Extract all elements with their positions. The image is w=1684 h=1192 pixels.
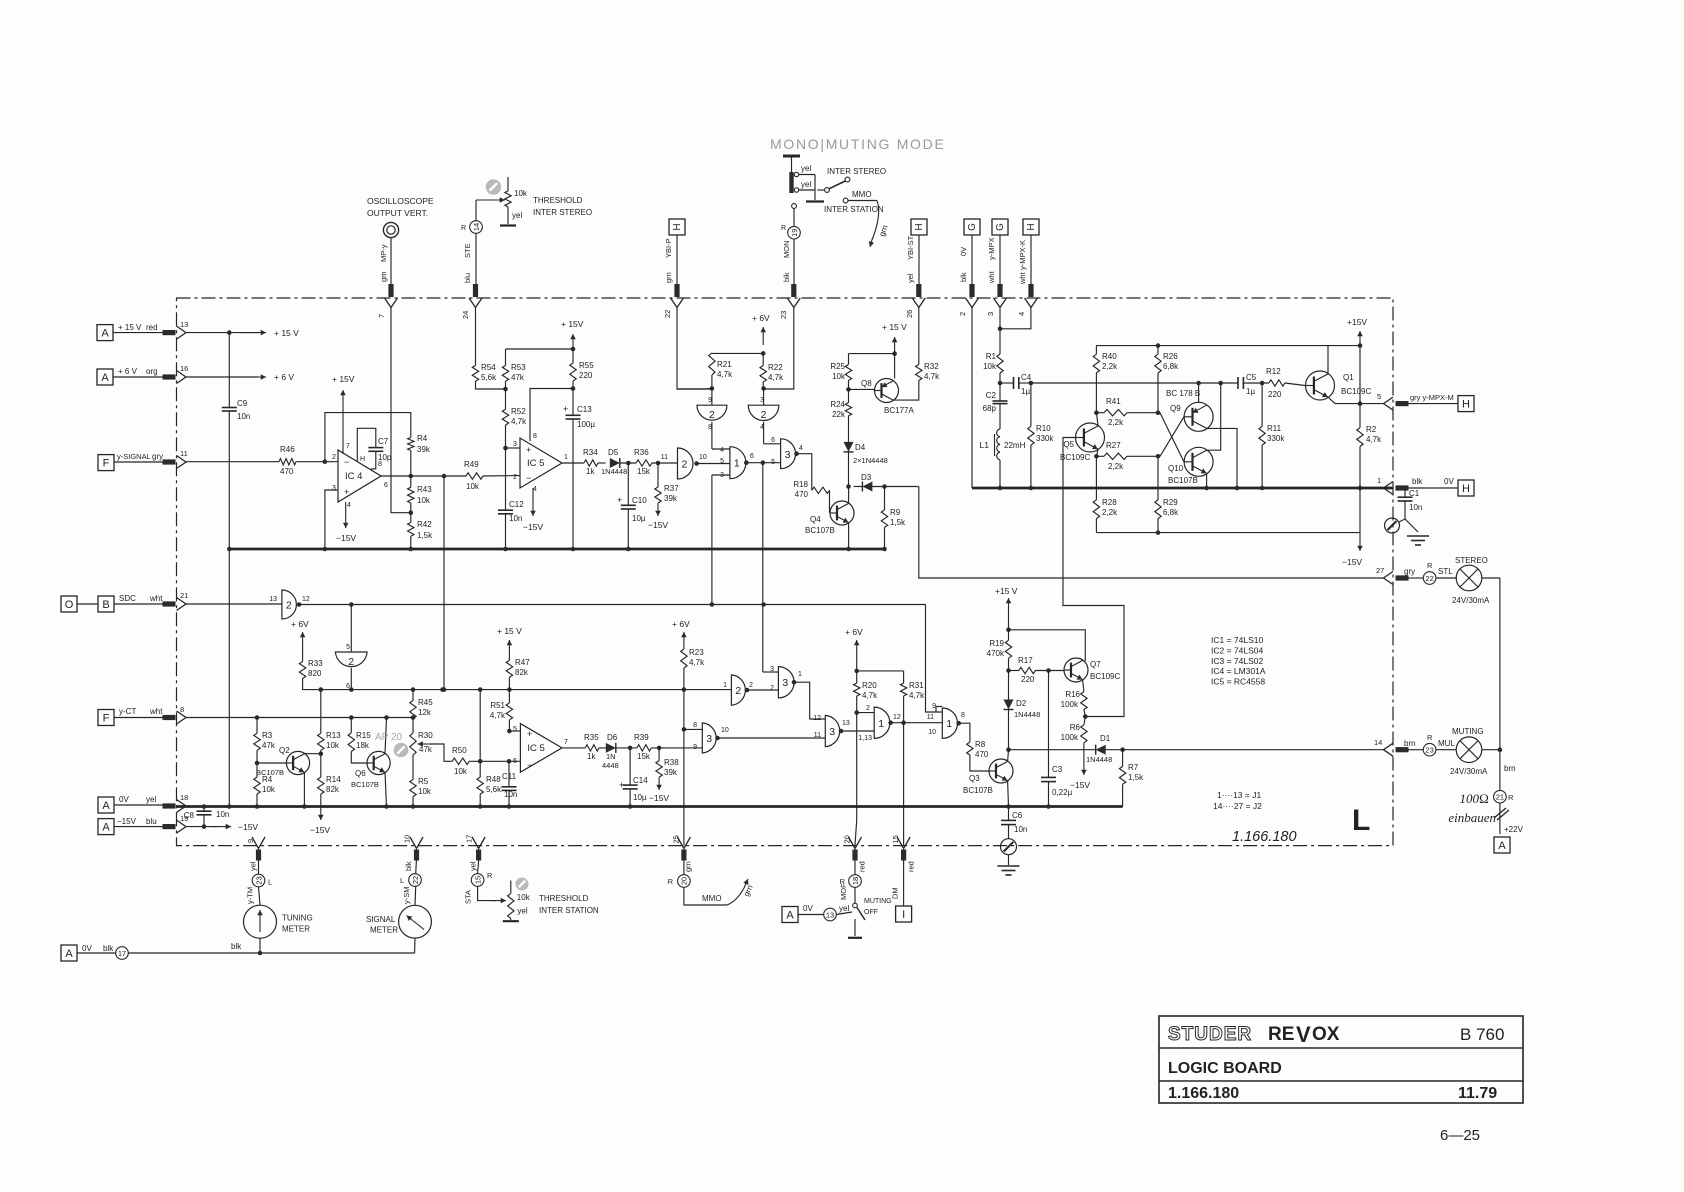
- svg-text:−15V: −15V: [1070, 780, 1090, 790]
- connector pin 13: [177, 326, 187, 339]
- wire MMO: [684, 887, 727, 905]
- svg-text:blk: blk: [1412, 477, 1423, 486]
- svg-text:AP 20: AP 20: [375, 732, 402, 743]
- svg-text:15k: 15k: [637, 467, 651, 476]
- wire main y=383: [1031, 382, 1238, 384]
- svg-text:1: 1: [878, 718, 884, 730]
- svg-text:H: H: [672, 223, 683, 230]
- svg-text:L: L: [400, 876, 404, 885]
- svg-text:18: 18: [851, 877, 860, 885]
- svg-text:1,5k: 1,5k: [890, 518, 906, 527]
- svg-text:10k: 10k: [326, 741, 340, 750]
- resistor R50 10k: [452, 758, 469, 764]
- svg-text:3: 3: [513, 441, 517, 448]
- resistor R8 470: [967, 742, 973, 755]
- svg-text:R39: R39: [634, 733, 649, 742]
- svg-text:R23: R23: [689, 648, 704, 657]
- wire gate4 output to R18: [797, 454, 812, 491]
- svg-text:I: I: [902, 909, 905, 921]
- svg-text:R26: R26: [1163, 352, 1178, 361]
- svg-text:D5: D5: [608, 448, 619, 457]
- svg-text:22: 22: [663, 310, 672, 318]
- switch S1 mono/muting: [783, 155, 800, 158]
- svg-text:24V/30mA: 24V/30mA: [1452, 596, 1490, 605]
- svg-text:y-MPX: y-MPX: [987, 238, 996, 261]
- svg-text:1: 1: [946, 718, 952, 730]
- diode D1 1N4448: [1096, 745, 1106, 755]
- svg-text:Q10: Q10: [1168, 464, 1184, 473]
- svg-text:+ 6V: + 6V: [752, 313, 770, 323]
- resistor R4 10k: [256, 763, 258, 777]
- svg-text:C7: C7: [378, 437, 389, 446]
- svg-text:−15V: −15V: [336, 533, 356, 543]
- wire IC5b output: [562, 747, 585, 749]
- svg-text:y-SIGNAL: y-SIGNAL: [117, 452, 151, 461]
- svg-text:yel: yel: [839, 904, 849, 913]
- capacitor C13 100u: [572, 389, 574, 416]
- svg-text:einbauen: einbauen: [1448, 810, 1496, 825]
- connector pin 24: [469, 298, 482, 308]
- svg-text:23: 23: [779, 311, 788, 319]
- svg-text:11: 11: [661, 454, 668, 461]
- connector pin 26: [912, 298, 925, 308]
- wire gate13 out to IC1 pin1,13: [841, 730, 874, 732]
- svg-text:2,2k: 2,2k: [1108, 462, 1124, 471]
- svg-text:7: 7: [564, 739, 568, 746]
- svg-text:1: 1: [564, 454, 568, 461]
- svg-text:9: 9: [932, 703, 936, 710]
- svg-text:10: 10: [699, 454, 707, 461]
- svg-text:4,7k: 4,7k: [689, 658, 705, 667]
- diode D4 2x1N4448: [848, 416, 850, 442]
- box I DM: [896, 906, 912, 922]
- svg-text:A: A: [786, 910, 794, 922]
- svg-text:68p: 68p: [983, 404, 997, 413]
- svg-text:15: 15: [891, 835, 900, 843]
- svg-text:IC2 = 74LS04: IC2 = 74LS04: [1211, 645, 1263, 655]
- svg-text:R24: R24: [830, 400, 845, 409]
- svg-text:1: 1: [734, 458, 740, 470]
- connector pin 2: [966, 298, 979, 308]
- svg-text:L: L: [268, 878, 272, 887]
- svg-text:MON: MON: [782, 241, 791, 259]
- svg-text:R: R: [1427, 733, 1433, 742]
- svg-text:brn: brn: [1504, 764, 1516, 773]
- svg-text:R17: R17: [1018, 656, 1033, 665]
- svg-text:1µ: 1µ: [1246, 387, 1255, 396]
- transistor Q6 BC107B: [367, 751, 390, 774]
- svg-text:1k: 1k: [587, 752, 596, 761]
- svg-text:R55: R55: [579, 361, 594, 370]
- resistor R42 1,5k: [410, 503, 412, 522]
- svg-text:9: 9: [246, 839, 255, 843]
- svg-text:R46: R46: [280, 445, 295, 454]
- svg-text:gry: gry: [1404, 567, 1415, 576]
- svg-text:5: 5: [771, 459, 775, 466]
- svg-text:THRESHOLD: THRESHOLD: [539, 894, 589, 903]
- svg-text:B 760: B 760: [1460, 1025, 1504, 1044]
- resistor R13 10k: [320, 690, 322, 734]
- wire SDC distribution: [299, 604, 925, 606]
- wire y-signal: [186, 461, 279, 463]
- trimmer threshold inter station: [516, 878, 529, 891]
- svg-text:C11: C11: [502, 772, 517, 781]
- svg-text:2: 2: [286, 600, 292, 612]
- svg-text:22: 22: [411, 876, 420, 884]
- resistor R12 220: [1269, 380, 1285, 386]
- wire Q7 emitter to R16: [1083, 680, 1084, 692]
- svg-text:4,7k: 4,7k: [924, 372, 940, 381]
- svg-text:22k: 22k: [832, 410, 846, 419]
- svg-text:O: O: [65, 599, 74, 611]
- svg-text:C12: C12: [509, 500, 524, 509]
- resistor R39 15k: [637, 745, 651, 751]
- svg-text:STL: STL: [1438, 567, 1453, 576]
- svg-text:21: 21: [1496, 793, 1504, 802]
- svg-text:y-MPX-K: y-MPX-K: [1018, 240, 1027, 270]
- svg-text:22: 22: [1425, 574, 1433, 583]
- svg-text:82k: 82k: [515, 668, 529, 677]
- op-amp IC5b: [520, 724, 562, 773]
- svg-text:BC 178 B: BC 178 B: [1166, 389, 1200, 398]
- svg-text:39k: 39k: [664, 768, 678, 777]
- svg-text:12: 12: [302, 596, 310, 603]
- box G for pin 2: [964, 219, 980, 235]
- svg-text:R11: R11: [1267, 424, 1282, 433]
- svg-text:org: org: [146, 367, 158, 376]
- wire +6V to R31: [857, 670, 904, 672]
- svg-text:R6: R6: [1070, 723, 1081, 732]
- connector pin 17: [472, 837, 485, 849]
- svg-text:24V/30mA: 24V/30mA: [1450, 767, 1488, 776]
- wire Q3 emitter: [1007, 781, 1010, 807]
- svg-text:2,2k: 2,2k: [1102, 362, 1118, 371]
- svg-text:0V: 0V: [803, 904, 813, 913]
- lamp MUTING 24V/30mA: [1436, 749, 1456, 751]
- svg-text:1k: 1k: [586, 467, 595, 476]
- svg-text:INTER STEREO: INTER STEREO: [533, 208, 592, 217]
- wire IC5a output: [562, 462, 584, 464]
- +6V arrow R33: [302, 632, 304, 645]
- svg-text:3: 3: [706, 733, 712, 745]
- svg-text:MMO: MMO: [702, 894, 722, 903]
- svg-text:4: 4: [347, 502, 351, 509]
- svg-text:0V: 0V: [1444, 477, 1454, 486]
- wire IC5a pin4 -15V: [532, 488, 534, 516]
- wire Q6 emitter: [385, 772, 387, 806]
- svg-text:C4: C4: [1021, 373, 1032, 382]
- feedback wire: [325, 413, 411, 462]
- svg-text:10k: 10k: [832, 372, 846, 381]
- svg-text:y-TM: y-TM: [246, 887, 255, 904]
- 0V rail right: [972, 487, 1393, 490]
- svg-text:10: 10: [721, 727, 729, 734]
- resistor R6 100k: [1084, 717, 1085, 725]
- wire Q5 emitter: [1096, 450, 1098, 457]
- resistor R5 10k: [412, 755, 414, 780]
- svg-text:820: 820: [308, 669, 322, 678]
- svg-text:yel: yel: [801, 180, 811, 189]
- svg-text:470: 470: [975, 750, 989, 759]
- chassis screw on border: [1001, 839, 1017, 855]
- svg-text:wht: wht: [987, 270, 996, 284]
- svg-text:R48: R48: [486, 775, 501, 784]
- svg-text:6: 6: [771, 437, 775, 444]
- svg-text:220: 220: [579, 371, 593, 380]
- svg-text:2: 2: [332, 454, 336, 461]
- svg-text:330k: 330k: [1267, 434, 1285, 443]
- svg-text:11: 11: [180, 449, 188, 458]
- diode D5 1N4448: [610, 458, 620, 468]
- trimmer threshold inter stereo 10k: [486, 179, 501, 194]
- capacitor C14 10u: [629, 748, 631, 785]
- svg-text:100k: 100k: [1061, 700, 1079, 709]
- capacitor C9 10n: [228, 333, 230, 408]
- svg-text:R43: R43: [417, 485, 432, 494]
- svg-text:THRESHOLD: THRESHOLD: [533, 196, 583, 205]
- svg-text:1N: 1N: [606, 752, 616, 761]
- svg-text:BC109C: BC109C: [1090, 672, 1120, 681]
- svg-text:Q4: Q4: [810, 515, 821, 524]
- connector pin 4: [1025, 298, 1038, 308]
- transistor Q1 BC109C: [1306, 371, 1335, 400]
- svg-text:82k: 82k: [326, 785, 340, 794]
- svg-text:yel: yel: [517, 907, 527, 916]
- svg-text:47k: 47k: [511, 373, 525, 382]
- inductor L1 22mH: [997, 429, 1000, 437]
- connector pin 11: [177, 456, 187, 469]
- +15V arrow R47: [508, 640, 510, 652]
- wire pin26 down to R32: [918, 308, 920, 365]
- svg-text:2: 2: [749, 682, 753, 689]
- earth ground: [998, 865, 1020, 867]
- svg-text:15k: 15k: [637, 752, 651, 761]
- terminal 15 circle: [471, 874, 484, 887]
- svg-text:−15V: −15V: [310, 825, 330, 835]
- svg-text:−15V: −15V: [1342, 557, 1362, 567]
- svg-text:INTER STEREO: INTER STEREO: [827, 167, 886, 176]
- svg-text:INTER STATION: INTER STATION: [824, 205, 884, 214]
- signal meter: [399, 905, 432, 938]
- lamp STEREO 24V/30mA: [1436, 577, 1456, 579]
- wire IC1a out to IC1b: [891, 722, 943, 724]
- svg-text:blk: blk: [959, 272, 968, 282]
- svg-text:100k: 100k: [1061, 733, 1079, 742]
- svg-text:16: 16: [180, 364, 188, 373]
- resistor R18 470: [812, 487, 830, 493]
- svg-text:C9: C9: [237, 399, 248, 408]
- switch inter-station contact MMO: [843, 198, 848, 203]
- svg-text:grn: grn: [664, 272, 673, 283]
- resistor R32 4,7k: [916, 364, 922, 380]
- svg-text:2,2k: 2,2k: [1102, 508, 1118, 517]
- svg-text:R9: R9: [890, 508, 901, 517]
- resistor R46 470: [279, 459, 296, 465]
- svg-text:V: V: [1296, 1022, 1311, 1047]
- svg-text:BC107B: BC107B: [256, 768, 284, 777]
- svg-text:4,7k: 4,7k: [909, 691, 925, 700]
- wire to signal meter: [414, 938, 416, 953]
- svg-text:IC 4: IC 4: [345, 471, 362, 482]
- terminal 21 circle: [1494, 790, 1507, 803]
- wire to threshold pot2: [478, 887, 496, 901]
- svg-text:3: 3: [986, 312, 995, 316]
- wire IC4 pin4 to -15V: [345, 502, 347, 528]
- wire R14 to -15V: [320, 794, 322, 820]
- svg-text:yel: yel: [906, 273, 915, 283]
- wire +15V to Q7 collector: [1009, 630, 1086, 661]
- resistor R29 6,8k: [1157, 456, 1159, 500]
- svg-text:1,13: 1,13: [858, 735, 872, 742]
- box H for pin 26: [911, 219, 927, 235]
- svg-text:D2: D2: [1016, 699, 1027, 708]
- connector pin 15: [897, 837, 910, 849]
- connector pin 21: [177, 598, 187, 611]
- wire Q4 emitter to rail: [848, 523, 850, 549]
- svg-text:C1: C1: [1409, 489, 1420, 498]
- wire Q5 collector: [1096, 413, 1098, 426]
- svg-text:R49: R49: [464, 460, 479, 469]
- connector pin 16: [177, 371, 187, 384]
- wire MON to pin 23: [792, 204, 797, 209]
- svg-text:YBI-ST: YBI-ST: [906, 235, 915, 260]
- svg-text:red: red: [858, 861, 867, 872]
- svg-text:1.166.180: 1.166.180: [1232, 829, 1297, 845]
- muting off switch: [854, 888, 856, 904]
- terminal R20circ: [678, 875, 691, 888]
- connector pin 7: [385, 298, 398, 308]
- svg-text:R31: R31: [909, 681, 924, 690]
- svg-text:22mH: 22mH: [1004, 441, 1026, 450]
- resistor R26 6,8k: [1157, 346, 1159, 355]
- svg-text:0,22µ: 0,22µ: [1052, 788, 1073, 797]
- wire Q3 collector: [1007, 750, 1010, 762]
- resistor R52 4,7k: [502, 409, 508, 425]
- resistor R54 5,6k: [472, 365, 478, 381]
- svg-text:OX: OX: [1312, 1024, 1340, 1045]
- svg-text:MUTING: MUTING: [1452, 727, 1484, 736]
- capacitor C8 10n: [203, 807, 205, 812]
- wire Q1 emitter to pin5: [1328, 397, 1384, 404]
- svg-text:+: +: [617, 495, 622, 505]
- svg-text:18k: 18k: [356, 741, 370, 750]
- svg-text:R42: R42: [417, 520, 432, 529]
- box A 0V blk: [61, 945, 77, 961]
- svg-text:4,7k: 4,7k: [862, 691, 878, 700]
- svg-text:17: 17: [118, 949, 126, 958]
- svg-text:R47: R47: [515, 658, 530, 667]
- svg-text:+: +: [526, 445, 531, 455]
- svg-text:+ 6 V: + 6 V: [118, 367, 138, 376]
- svg-text:470k: 470k: [987, 649, 1005, 658]
- box H pin 5: [1458, 396, 1474, 412]
- svg-text:5: 5: [346, 644, 350, 651]
- svg-text:18: 18: [180, 793, 188, 802]
- svg-text:L: L: [1352, 804, 1370, 837]
- wire pin23 down: [764, 308, 794, 390]
- svg-text:1N4448: 1N4448: [1086, 755, 1112, 764]
- op-amp IC5a: [520, 438, 562, 488]
- svg-text:R: R: [668, 877, 674, 886]
- svg-text:R19: R19: [989, 639, 1004, 648]
- svg-text:7: 7: [346, 443, 350, 450]
- +15V arrow: [1359, 331, 1361, 346]
- svg-text:B: B: [102, 599, 109, 611]
- svg-text:wht: wht: [149, 707, 163, 716]
- terminal 17 circle: [116, 947, 129, 960]
- svg-text:220: 220: [1021, 675, 1035, 684]
- svg-text:+ 15 V: + 15 V: [274, 328, 299, 338]
- svg-text:8: 8: [961, 712, 965, 719]
- trimmer R30 47k: [412, 719, 414, 733]
- svg-text:R13: R13: [326, 731, 341, 740]
- svg-text:−15V: −15V: [523, 522, 543, 532]
- svg-text:24: 24: [461, 311, 470, 319]
- wire Q4 collector: [848, 487, 850, 504]
- terminal 13 circle: [824, 908, 837, 921]
- svg-text:13: 13: [269, 596, 277, 603]
- svg-text:23: 23: [1425, 746, 1433, 755]
- terminal R23circ: [252, 874, 265, 887]
- svg-text:10k: 10k: [514, 189, 528, 198]
- title block: [1159, 1016, 1523, 1103]
- wiper of R30: [418, 743, 431, 745]
- svg-text:2,2k: 2,2k: [1108, 418, 1124, 427]
- svg-text:10: 10: [403, 835, 412, 843]
- wire branch to gate 5: [350, 605, 352, 653]
- svg-text:13: 13: [826, 910, 834, 919]
- svg-text:14: 14: [472, 223, 481, 231]
- svg-text:Q2: Q2: [279, 746, 290, 755]
- +6V arrow R20: [856, 640, 858, 652]
- svg-text:10p: 10p: [378, 453, 392, 462]
- svg-text:C8: C8: [184, 811, 195, 820]
- svg-text:21: 21: [180, 591, 188, 600]
- tuning meter: [244, 905, 277, 938]
- svg-text:H: H: [1026, 223, 1037, 230]
- box A -15V blu: [98, 819, 114, 835]
- svg-text:+ 15 V: + 15 V: [118, 323, 142, 332]
- svg-text:39k: 39k: [664, 494, 678, 503]
- svg-text:19: 19: [790, 229, 799, 237]
- svg-text:D6: D6: [607, 733, 618, 742]
- svg-text:SIGNAL: SIGNAL: [366, 915, 396, 924]
- svg-text:1N4448: 1N4448: [601, 467, 627, 476]
- svg-text:100Ω: 100Ω: [1460, 791, 1490, 806]
- svg-text:MMO: MMO: [852, 190, 872, 199]
- diode D6 1N4448: [606, 743, 616, 753]
- resistor R34 1k: [584, 460, 598, 466]
- svg-text:R54: R54: [481, 363, 496, 372]
- connector pin 3: [994, 298, 1007, 308]
- wire -15V drop: [1359, 488, 1361, 533]
- wire MP-y: [390, 238, 392, 284]
- connector pin 8: [177, 711, 187, 724]
- svg-text:red: red: [146, 323, 158, 332]
- transistor Q9 BC178B: [1184, 402, 1213, 431]
- svg-text:IC 5: IC 5: [527, 458, 544, 469]
- svg-text:13: 13: [180, 320, 188, 329]
- svg-text:R7: R7: [1128, 763, 1139, 772]
- svg-text:R50: R50: [452, 746, 467, 755]
- svg-text:YBI-P: YBI-P: [664, 238, 673, 258]
- connector pin 10: [410, 837, 423, 849]
- svg-text:+ 6 V: + 6 V: [274, 372, 294, 382]
- resistor R10 330k: [1030, 383, 1032, 426]
- svg-text:+ 15 V: + 15 V: [882, 322, 907, 332]
- svg-text:3: 3: [829, 726, 835, 738]
- svg-text:10k: 10k: [262, 785, 276, 794]
